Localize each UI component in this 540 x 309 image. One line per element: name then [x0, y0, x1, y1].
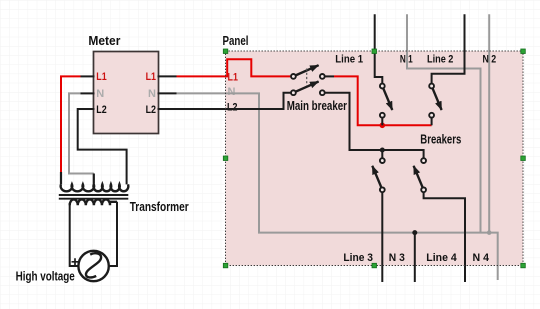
selection handle bottom-left [223, 263, 228, 268]
wire meter N right stub [158, 92, 177, 94]
junction L2 bus breaker C [380, 148, 385, 153]
wire L2 main breaker out stub [325, 93, 424, 159]
wire L1 meter to panel [177, 75, 227, 77]
svg-text:L2: L2 [227, 101, 237, 113]
svg-text:L1: L1 [146, 71, 156, 83]
wire N1 drop [407, 14, 481, 232]
wire center tap lead [93, 174, 95, 184]
panel selection dashed border [226, 51, 524, 266]
wire N2 drop [488, 14, 490, 232]
svg-text:Main breaker: Main breaker [287, 98, 347, 113]
svg-text:Panel: Panel [223, 33, 249, 48]
junction N3 on neutral bus [412, 230, 417, 235]
wire L1 jog inside panel [226, 59, 292, 76]
selection handle top-left [223, 49, 228, 54]
wire N3 drop to pin [414, 233, 416, 282]
selection handle mid-left [223, 156, 228, 161]
wire primary left lead [70, 203, 79, 266]
selection handle top-right [521, 49, 526, 54]
wire N inside panel to neutral bus [226, 93, 498, 280]
svg-text:High voltage: High voltage [16, 269, 75, 284]
breaker C (Line 3) [372, 158, 384, 192]
wire breaker A bottom stub [381, 117, 383, 125]
selection handle mid-right [521, 156, 526, 161]
svg-text:N: N [228, 86, 236, 98]
meter box [94, 52, 159, 134]
svg-text:Line 2: Line 2 [427, 54, 453, 66]
svg-text:Line 1: Line 1 [335, 54, 363, 66]
svg-text:L2: L2 [146, 104, 156, 116]
wire N meter to panel [177, 92, 227, 94]
selection handle top-mid [372, 49, 377, 54]
AC source V1 circle [78, 251, 108, 281]
wire L2 inside panel [226, 93, 292, 109]
svg-text:Transformer: Transformer [130, 199, 189, 214]
panel box [226, 51, 524, 266]
main breaker switch pole L2 [291, 82, 325, 96]
svg-text:Breakers: Breakers [420, 132, 461, 147]
wire Line 2 pin and jog [432, 14, 465, 84]
wire breaker B bottom stub [431, 117, 433, 125]
svg-text:N: N [148, 88, 156, 100]
AC source V1 sine wave [86, 253, 101, 277]
main breaker gang tie dashed [306, 69, 308, 87]
wire Line 3 drop to pin [381, 192, 383, 282]
svg-text:L1: L1 [96, 71, 106, 83]
wire N meter left stub [81, 92, 95, 94]
main breaker switch pole L1 [291, 65, 325, 79]
transformer T1 core [59, 195, 129, 199]
transformer T1 primary winding [70, 199, 117, 205]
breaker A (Line 1) [380, 84, 392, 118]
wire L1 red bus [334, 76, 432, 125]
junction N2 on neutral bus [487, 230, 492, 235]
svg-text:Line 3: Line 3 [343, 252, 373, 264]
transformer T1 secondary winding [61, 184, 129, 191]
wire L1 main breaker out stub [325, 75, 335, 77]
svg-text:Line 4: Line 4 [426, 252, 457, 264]
svg-text:N: N [96, 88, 104, 100]
svg-text:N 2: N 2 [483, 54, 497, 66]
wire primary right lead [109, 202, 117, 266]
selection handle bottom-mid [372, 263, 377, 268]
wire L1 lead to winding [60, 172, 62, 184]
wire Line 4 drop to pin [424, 192, 465, 282]
breaker D (Line 4) [414, 158, 426, 192]
wire L1 red from meter to transformer [61, 76, 81, 174]
svg-text:L1: L1 [228, 72, 238, 84]
wire L2 from meter to winding right [78, 109, 127, 184]
junction red bus breaker A [380, 123, 386, 129]
wire N gray from meter to center tap [69, 93, 94, 173]
svg-text:Meter: Meter [88, 33, 120, 48]
selection handle bottom-right [521, 263, 526, 268]
svg-text:N 3: N 3 [389, 252, 405, 264]
AC source plus sign [72, 258, 79, 265]
wire Line 1 pin and jog [375, 14, 383, 84]
breaker B (Line 2) [429, 84, 441, 118]
svg-text:N 1: N 1 [400, 54, 413, 66]
svg-text:N 4: N 4 [473, 252, 490, 264]
wire breaker C top stub [381, 150, 383, 159]
wire meter L1 right stub [158, 75, 177, 77]
wire L2 meter to panel [158, 108, 227, 110]
svg-text:L2: L2 [96, 104, 106, 116]
wire L1 meter left stub [81, 75, 95, 77]
